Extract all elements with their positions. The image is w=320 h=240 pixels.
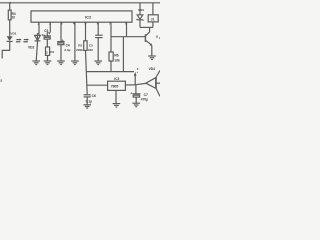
wire R3 to VD1 — [9, 20, 11, 36]
ground for emitter — [148, 56, 156, 60]
wire R5 long down to C6 — [86, 50, 88, 94]
capacitor C3 electrolytic — [44, 32, 51, 39]
+5V arrow — [134, 72, 137, 85]
pin 1 stub — [38, 22, 40, 35]
svg-text:VS3: VS3 — [138, 8, 144, 12]
svg-text:IC2: IC2 — [85, 15, 92, 20]
svg-text:330: 330 — [88, 48, 93, 52]
label VD1 — [10, 32, 16, 36]
svg-text:7805: 7805 — [111, 84, 119, 88]
zener diode VS3 — [137, 3, 144, 28]
svg-text:VD4: VD4 — [149, 67, 156, 71]
capacitor C5 — [95, 35, 102, 37]
ground for C6 — [83, 105, 91, 108]
label IC3 — [114, 77, 119, 81]
ground for C3 chain — [44, 61, 52, 65]
resistor R5 — [84, 41, 87, 51]
svg-text:+: + — [62, 38, 64, 42]
label VD2 — [28, 45, 35, 49]
ground for C4 — [57, 61, 65, 65]
wire C3 to R4 — [46, 39, 48, 47]
label V1 — [156, 35, 161, 40]
label C5 330 — [88, 44, 93, 53]
regulator 7805 box — [108, 81, 126, 90]
resistor R4 — [46, 47, 50, 55]
wire C6 to ground — [86, 97, 88, 105]
label + C7 470u — [130, 92, 148, 102]
svg-text:+: + — [48, 32, 50, 36]
ground for C5 — [94, 61, 102, 65]
wire W1 to +5V rail — [86, 71, 134, 73]
svg-text:VD1: VD1 — [10, 32, 16, 36]
svg-text:10k: 10k — [114, 59, 120, 63]
photodiode VD2 — [35, 35, 41, 41]
svg-text:1s: 1s — [0, 78, 2, 82]
wire C4 to ground — [60, 45, 62, 61]
pin 5 stub — [85, 22, 87, 41]
svg-text:J1: J1 — [151, 17, 155, 21]
svg-text:C6: C6 — [92, 94, 96, 98]
capacitor C4 electrolytic — [57, 42, 64, 45]
wire R6 to W1 — [110, 61, 112, 72]
wire 7805 ground pin — [115, 90, 117, 103]
pin 2 stub — [49, 22, 51, 32]
wire C5 to ground — [97, 38, 99, 61]
node junction on rail at R3 branch — [9, 2, 11, 4]
resistor R3 — [8, 10, 11, 20]
svg-text:R6: R6 — [114, 53, 118, 57]
label R4 — [46, 50, 55, 55]
wire base line pins 7,8 to transistor — [111, 36, 145, 38]
ground for C7 — [132, 103, 140, 107]
pin 6 stub — [97, 22, 99, 35]
pin 7 stub — [110, 22, 112, 52]
label J1 — [151, 17, 155, 21]
svg-text:200k: 200k — [76, 48, 83, 52]
capacitor C7 electrolytic — [133, 85, 141, 103]
IR radiation arrows — [16, 39, 29, 42]
pin numbers 1-8 — [38, 22, 128, 26]
label cut text at left edge — [0, 75, 2, 83]
pin 4 stub to ground — [74, 22, 76, 61]
relay J1 — [148, 3, 158, 28]
label C6 0.1u — [86, 94, 96, 104]
resistor R6 — [109, 52, 113, 61]
label C3 1u + — [42, 29, 51, 37]
ground for 7805 — [113, 104, 121, 108]
pin 3 stub — [60, 22, 62, 41]
svg-text:470µ: 470µ — [141, 97, 148, 101]
svg-text:+: + — [130, 92, 132, 96]
svg-text:C4: C4 — [66, 44, 70, 48]
svg-text:2: 2 — [46, 51, 48, 55]
label C4 3.3u + — [62, 38, 71, 52]
svg-text:C7: C7 — [144, 93, 148, 97]
svg-text:+: + — [137, 70, 139, 74]
wire branch to 7805 input — [87, 84, 108, 86]
label VS3 — [138, 8, 144, 12]
wire VD2 to ground — [37, 33, 39, 42]
svg-text:1µ: 1µ — [42, 33, 46, 37]
wire rail to R3 — [9, 3, 11, 10]
label IC2 — [85, 15, 92, 20]
transistor V1 — [145, 27, 152, 55]
svg-text:10: 10 — [12, 15, 16, 19]
svg-text:R5: R5 — [78, 44, 82, 48]
capacitor C6 — [84, 95, 91, 97]
svg-text:VD2: VD2 — [28, 45, 35, 49]
wire top supply rail — [0, 2, 160, 4]
svg-text:0.1µ: 0.1µ — [86, 100, 92, 104]
ground for VD2 — [32, 61, 40, 65]
svg-text:1: 1 — [159, 37, 160, 40]
wire R4 to ground — [47, 55, 49, 61]
label VD4 — [149, 67, 156, 71]
wire riser to W1 — [122, 37, 124, 72]
svg-text:3.3µ: 3.3µ — [64, 48, 70, 52]
value label R3 10 — [12, 12, 16, 19]
label 7805 — [111, 84, 119, 88]
ground for pin 4 — [71, 61, 79, 65]
pin 8 wire down to W1 — [126, 22, 128, 37]
label R5 200k — [76, 44, 83, 53]
wire collector bus — [140, 26, 153, 28]
label +5 — [137, 67, 139, 74]
wire VD1 down and left to mains — [2, 41, 10, 58]
diode VD4 — [146, 70, 160, 96]
svg-text:R4: R4 — [50, 50, 54, 54]
diode VD1 (IR emitter LED) — [7, 36, 13, 41]
IC2 box — [31, 11, 132, 22]
svg-text:C5: C5 — [89, 44, 93, 48]
wire 7805 output — [125, 84, 135, 86]
label R6 10k — [114, 53, 120, 62]
